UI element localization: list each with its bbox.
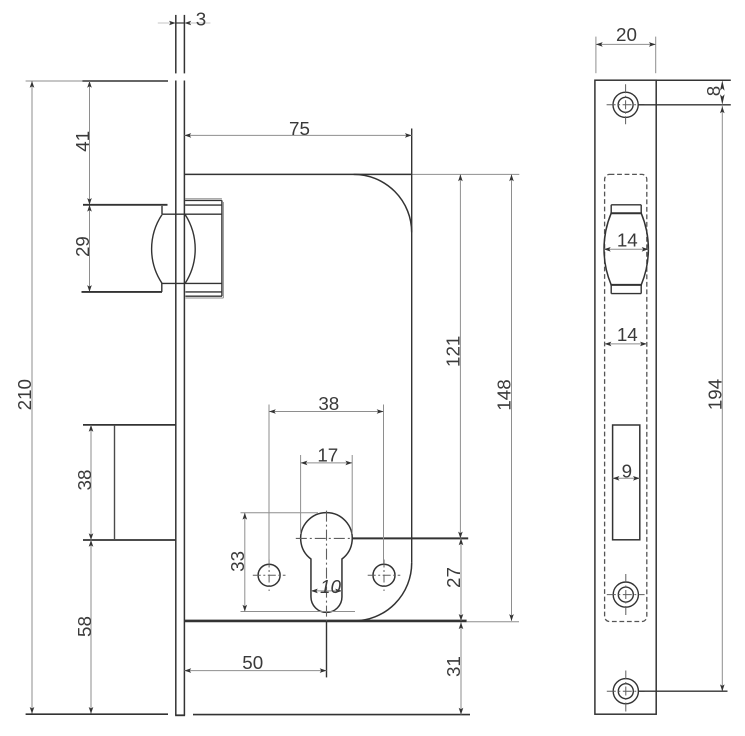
dim 10 arrow right: [335, 589, 342, 594]
svg-text:8: 8: [703, 86, 724, 96]
dim 38L arrow bottom: [89, 533, 94, 540]
svg-text:3: 3: [196, 8, 206, 29]
case top edge: [184, 173, 412, 175]
dim 121 line: [459, 174, 461, 538]
dim 3 arrow right: [184, 21, 191, 26]
dim 20 ext left: [595, 37, 597, 74]
svg-text:17: 17: [317, 444, 338, 465]
case top edge extension: [412, 173, 519, 175]
dim 17 line: [301, 462, 353, 464]
hidden lock case dashed rect: [605, 174, 647, 621]
dim 38C ext right: [383, 405, 385, 564]
faceplate front outline: [595, 80, 656, 714]
dim 38C arrow right: [377, 409, 384, 414]
screw hole right crosshair: [368, 574, 401, 576]
latch bottom extension line: [82, 291, 163, 293]
dim 9 arrow left: [613, 476, 620, 481]
svg-text:10: 10: [320, 576, 341, 597]
latch housing top lines: [185, 199, 222, 201]
dim 33 ext top: [241, 512, 319, 514]
dim 14T arrow left: [604, 247, 611, 252]
svg-text:29: 29: [72, 236, 93, 257]
dim 75 arrow right: [405, 133, 412, 138]
dim 41 line: [89, 81, 91, 205]
dim 33 line: [244, 513, 246, 612]
dim 20 arrow left: [596, 42, 603, 47]
dim 10 line: [311, 590, 342, 592]
case bottom edge extension: [467, 621, 519, 623]
dim 29 line: [89, 205, 91, 292]
dim 210 arrow bottom: [30, 707, 35, 714]
cylinder horizontal centerline: [296, 537, 353, 539]
bottom extension line left: [26, 713, 168, 715]
dim 9 line: [613, 477, 640, 479]
dim 148 arrow bottom: [509, 614, 514, 621]
case bottom-right corner arc: [354, 563, 412, 621]
dim 3 leader right: [190, 22, 211, 24]
svg-text:14: 14: [617, 324, 638, 345]
front top hole crosshair: [607, 104, 645, 106]
svg-text:14: 14: [617, 229, 638, 250]
case top-right corner arc: [354, 174, 412, 232]
svg-text:41: 41: [72, 131, 93, 152]
dim 75 line: [184, 134, 411, 136]
cylinder centerline extension below case: [326, 621, 328, 678]
deadbolt rectangle: [613, 425, 640, 540]
cylinder profile: [301, 513, 353, 613]
dim 121 arrow top: [458, 174, 463, 181]
svg-text:148: 148: [493, 379, 514, 410]
svg-text:121: 121: [442, 336, 463, 367]
dim 10 arrow left: [311, 589, 318, 594]
dim 14B line: [605, 343, 647, 345]
dim 194 line: [721, 105, 723, 691]
latch front left arc: [604, 213, 611, 285]
dim 50 arrow right: [320, 668, 327, 673]
case bottom edge: [184, 620, 466, 623]
front bottom hole crosshair: [607, 690, 645, 692]
dim 31 arrow bottom: [459, 708, 464, 715]
dim 121 arrow bottom: [458, 532, 463, 539]
svg-text:31: 31: [443, 656, 464, 677]
dim 194 arrow top: [720, 107, 725, 114]
dim 20 ext right: [655, 37, 657, 74]
latch housing right edge: [221, 200, 223, 296]
dim 38C arrow left: [269, 409, 276, 414]
front middle screw hole: [613, 582, 638, 607]
hub box top edge: [83, 424, 176, 426]
dim 14T line: [604, 248, 649, 250]
svg-text:194: 194: [704, 379, 725, 410]
latch front bottom cap: [610, 284, 642, 286]
dim 3 leader left: [158, 22, 171, 24]
svg-text:58: 58: [74, 616, 95, 637]
hub box left edge: [114, 425, 116, 540]
front top screw hole: [613, 92, 638, 117]
dim 8 arrow top: [720, 80, 725, 91]
front middle hole crosshair: [607, 594, 645, 596]
dim 29 arrow bottom: [87, 285, 92, 292]
latch top extension line: [83, 204, 168, 206]
dim 20 line: [596, 43, 656, 45]
screw hole left: [258, 564, 280, 586]
dim 17 ext left: [300, 455, 302, 534]
svg-text:20: 20: [616, 24, 637, 45]
dim 33 ext bottom: [241, 611, 356, 613]
dim 41 arrow top: [87, 81, 92, 88]
latch housing bottom lines: [161, 282, 222, 284]
latch front top cap: [611, 204, 641, 206]
svg-text:75: 75: [289, 118, 310, 139]
bottom extension line right: [193, 714, 470, 716]
bottom hole center extension: [638, 690, 727, 692]
dim 31 arrow top: [459, 622, 464, 629]
dim 14B arrow right: [640, 342, 647, 347]
svg-text:27: 27: [443, 567, 464, 588]
faceplate side view (vertical strip): [175, 15, 177, 74]
dim 27 line: [460, 538, 462, 620]
dim 194 arrow bottom: [720, 684, 725, 691]
dim 210 arrow top: [30, 81, 35, 88]
case right edge: [411, 129, 413, 563]
dim 210 line: [31, 81, 33, 714]
dim 27 arrow top: [459, 538, 464, 545]
dim 58 arrow bottom: [89, 707, 94, 714]
dim 75 arrow left: [184, 133, 191, 138]
dim 33 arrow top: [243, 513, 248, 520]
latch housing shadow lines: [185, 198, 222, 200]
svg-text:33: 33: [227, 551, 248, 572]
svg-text:38: 38: [318, 393, 339, 414]
screw hole left crosshair: [253, 574, 286, 576]
top hole center extension: [638, 104, 731, 106]
cylinder vertical centerline: [326, 511, 328, 621]
dim 31 line: [460, 622, 462, 714]
dim 38C ext left: [268, 405, 270, 564]
svg-text:38: 38: [74, 470, 95, 491]
dim 17 ext right: [351, 455, 353, 534]
dim 50 line: [184, 670, 326, 672]
dim 3 arrow left: [169, 21, 176, 26]
dim 38L arrow top: [89, 425, 94, 432]
dim 27 arrow bottom: [459, 614, 464, 621]
front bottom screw hole: [613, 679, 638, 704]
svg-text:50: 50: [242, 652, 263, 673]
latch front right arc: [641, 213, 648, 285]
extension line top edge: [26, 80, 83, 82]
dim 50 arrow left: [184, 668, 191, 673]
faceplate top edge extension: [656, 79, 731, 81]
dim 41 arrow bottom: [87, 198, 92, 205]
dim 148 line: [511, 174, 513, 621]
dim 17 arrow left: [301, 461, 308, 466]
svg-text:9: 9: [622, 460, 632, 481]
svg-text:210: 210: [14, 379, 35, 410]
dim 8 arrow bottom: [720, 94, 725, 105]
dim 14B arrow left: [605, 342, 612, 347]
screw hole right: [373, 564, 395, 586]
dim 148 arrow top: [509, 174, 514, 181]
latch bolt nose right arc: [185, 215, 195, 284]
dim 17 arrow right: [345, 461, 352, 466]
dim 20 arrow right: [649, 42, 656, 47]
dim 29 arrow top: [87, 205, 92, 212]
latch bolt nose left arc: [152, 215, 162, 284]
cylinder center extension line: [352, 537, 468, 539]
dim 33 arrow bottom: [243, 605, 248, 612]
dim 38L line: [90, 425, 92, 540]
hub box bottom edge: [83, 539, 176, 541]
dim 14T arrow right: [642, 247, 649, 252]
dim 58 line: [90, 540, 92, 714]
dim 9 arrow right: [633, 476, 640, 481]
dim 58 arrow top: [89, 540, 94, 547]
dim 38C line: [269, 411, 384, 413]
